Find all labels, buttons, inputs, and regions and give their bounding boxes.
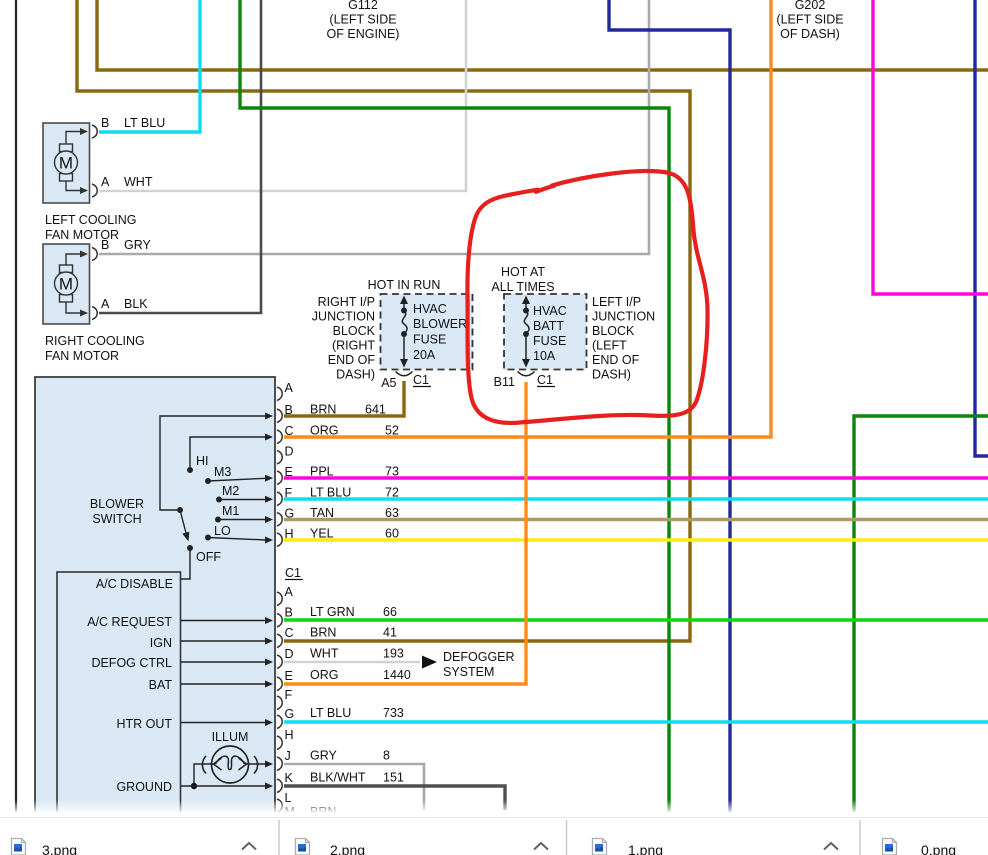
svg-text:HTR OUT: HTR OUT [116,717,172,731]
left fan pin A bracket [92,184,97,197]
svg-text:M2: M2 [222,484,239,498]
wire LT BLU 72 (pin F) [284,497,988,500]
svg-text:A: A [101,175,110,189]
svg-text:LO: LO [214,524,231,538]
svg-text:73: 73 [385,465,399,479]
svg-text:C: C [285,626,294,640]
svg-text:A: A [285,585,294,599]
control module inner box [57,572,181,813]
connector C1b pin E [277,668,411,691]
svg-text:RIGHT COOLING: RIGHT COOLING [45,334,145,348]
wire BRN top full-width [97,0,988,70]
connector C1b pin M faded [285,805,337,819]
svg-text:(LEFT SIDE: (LEFT SIDE [329,13,396,27]
svg-text:G: G [285,507,295,521]
connector C1b pin J [277,749,390,771]
download item 3.png icon [12,839,26,855]
svg-text:FUSE: FUSE [413,333,446,347]
svg-text:YEL: YEL [310,527,334,541]
svg-text:HI: HI [196,454,209,468]
svg-text:0.png: 0.png [921,842,956,855]
connector C1a pin D [277,445,294,465]
wire DK GRN long (to G112 area) [240,0,669,812]
svg-text:JUNCTION: JUNCTION [312,310,375,324]
svg-text:A5: A5 [381,376,396,390]
left fan name [45,213,136,242]
svg-text:BLOCK: BLOCK [592,324,635,338]
connector C1a pin G [277,506,399,526]
svg-text:J: J [285,749,291,763]
svg-text:GROUND: GROUND [116,780,172,794]
svg-text:END OF: END OF [592,353,640,367]
svg-text:M: M [59,275,73,294]
svg-text:A/C DISABLE: A/C DISABLE [96,577,173,591]
download shelf background [0,812,988,855]
wire DK BLU right edge [975,0,988,456]
ground G202 label [776,0,843,41]
svg-text:C1: C1 [285,566,301,580]
svg-text:M1: M1 [222,504,239,518]
svg-text:END OF: END OF [328,353,376,367]
switch M3 contact [205,465,273,484]
svg-text:M: M [59,154,73,173]
defogger system arrow [422,650,515,679]
switch OFF contact [181,545,221,579]
wire LT BLU 733 (pin G group2) [284,720,988,723]
svg-text:BLK/WHT: BLK/WHT [310,771,366,785]
download item 2.png icon [296,839,310,855]
wire ORG 1440 (pin E to fuse B11) [284,382,526,684]
svg-text:D: D [285,647,294,661]
svg-text:TAN: TAN [310,506,334,520]
fuse F2 HOT AT ALL TIMES label [491,265,554,294]
connector C1a pin F [277,486,399,506]
wire LT BLU to left fan pin B [99,0,200,132]
right fan pin B bracket [92,248,97,261]
connector C1b pin G [277,706,404,729]
download shelf top border [0,817,988,819]
switch pivot [177,507,183,513]
svg-text:72: 72 [385,486,399,500]
blower switch name [90,497,144,526]
svg-text:10A: 10A [533,349,556,363]
svg-text:GRY: GRY [124,238,152,252]
connector C1a pin B [277,403,386,423]
wire YEL 60 (pin H) [284,538,988,541]
svg-text:OFF: OFF [196,550,221,564]
connector C1a pin C [277,424,399,444]
wire BRN 641 (pin B to fuse A5) [284,381,404,416]
svg-text:F: F [285,486,293,500]
fuse F1 box [381,294,473,370]
wire PNK/magenta right [873,0,988,294]
svg-text:PPL: PPL [310,465,334,479]
svg-text:JUNCTION: JUNCTION [592,310,655,324]
svg-text:BLOWER: BLOWER [90,497,144,511]
connector C1a pin A [277,381,294,401]
svg-text:63: 63 [385,506,399,520]
download item 1.png icon [593,839,607,855]
wire BLK/WHT 151 (pin K) [284,786,505,810]
lamp left lead with junction [191,764,214,789]
svg-text:193: 193 [383,647,404,661]
connector C1b pin H [277,728,294,750]
fuse F2 symbol [522,296,530,368]
download item 2.png chevron [534,843,548,850]
switch common line to pin B [160,413,273,511]
switch M2 contact [216,484,273,503]
fuse F1 symbol [400,296,408,368]
wire GRY to right fan pin B [99,0,649,254]
HTR OUT line [116,717,273,731]
switch arm arrow [180,510,189,542]
svg-text:60: 60 [385,527,399,541]
download item 0.png icon [883,839,897,855]
svg-text:(LEFT: (LEFT [592,339,627,353]
svg-text:HVAC: HVAC [533,304,567,318]
svg-text:E: E [285,465,293,479]
svg-text:A: A [101,297,110,311]
fuse F2 box [504,294,587,370]
svg-text:H: H [285,527,294,541]
svg-text:BLOWER: BLOWER [413,317,467,331]
svg-text:LT GRN: LT GRN [310,605,355,619]
svg-text:BRN: BRN [310,626,336,640]
svg-text:66: 66 [383,605,397,619]
wire DK BLU long [609,0,730,812]
svg-text:B: B [285,403,293,417]
right fan pin B labels [101,238,152,252]
svg-text:B11: B11 [494,375,515,389]
svg-text:ORG: ORG [310,424,338,438]
svg-text:LT BLU: LT BLU [124,116,165,130]
wire TAN 63 (pin G) [284,518,988,521]
wire BRN 41 loop (pin C to G112 side) [77,0,690,641]
svg-text:BRN: BRN [310,403,336,417]
bottom fade [0,800,988,814]
connector C1b pin B [277,605,397,627]
svg-text:733: 733 [383,706,404,720]
svg-text:DEFOG CTRL: DEFOG CTRL [91,656,172,670]
connector C1b pin C [277,626,397,648]
fuse F1 connector cup [396,372,413,376]
right fan name [45,334,145,363]
svg-text:41: 41 [383,626,397,640]
right fan pin A labels [101,297,148,311]
svg-text:DASH): DASH) [592,368,631,382]
svg-text:B: B [285,606,293,620]
connector C1a pin E [277,465,399,485]
svg-text:HOT AT: HOT AT [501,265,545,279]
svg-text:FAN MOTOR: FAN MOTOR [45,349,119,363]
svg-text:DEFOGGER: DEFOGGER [443,650,515,664]
svg-text:D: D [285,445,294,459]
svg-text:C1: C1 [413,373,429,387]
switch LO contact [205,524,273,544]
wire BLK to right fan pin A [99,0,261,313]
svg-text:LT BLU: LT BLU [310,486,351,500]
svg-text:SYSTEM: SYSTEM [443,665,494,679]
left fan pin A labels [101,175,153,189]
svg-text:LEFT COOLING: LEFT COOLING [45,213,136,227]
svg-text:LT BLU: LT BLU [310,706,351,720]
svg-text:IGN: IGN [150,636,172,650]
svg-text:641: 641 [365,403,386,417]
svg-text:ORG: ORG [310,668,338,682]
motor M2 right cooling fan [43,244,90,324]
svg-text:8: 8 [383,749,390,763]
connector C1b pin K [277,771,404,793]
svg-text:M3: M3 [214,465,231,479]
motor M1 left cooling fan [43,123,90,203]
svg-text:OF ENGINE): OF ENGINE) [327,27,400,41]
right fan pin A bracket [92,307,97,320]
lamp ILLUM symbol [202,746,257,783]
IGN line [150,636,273,650]
connector C1b pin F [277,688,293,710]
svg-text:F: F [285,688,293,702]
wire GRY 8 (pin J) [284,764,424,810]
svg-text:A/C REQUEST: A/C REQUEST [87,615,172,629]
svg-text:C: C [285,424,294,438]
fuse F1 HVAC BLOWER FUSE 20A [413,302,467,362]
svg-text:C1: C1 [537,373,553,387]
lamp right lead to pin J [246,761,273,768]
fuse F2 C1 label [537,373,555,387]
connector C1 label [285,566,303,580]
svg-text:LEFT I/P: LEFT I/P [592,295,641,309]
download item 3.png chevron [242,843,256,850]
left junction block name [592,295,655,382]
svg-text:ILLUM: ILLUM [212,730,249,744]
A/C REQUEST line [87,615,273,629]
svg-text:GRY: GRY [310,749,338,763]
svg-text:ALL TIMES: ALL TIMES [491,280,554,294]
svg-text:2.png: 2.png [330,842,365,855]
svg-text:WHT: WHT [310,647,339,661]
svg-text:151: 151 [383,771,404,785]
fuse F1 C1 label [413,373,431,387]
svg-text:E: E [285,669,293,683]
wire WHT 193 (pin D to defogger) [284,661,420,664]
right junction block name [312,295,376,382]
switch M1 contact [215,504,273,523]
svg-text:3.png: 3.png [42,842,77,855]
svg-text:SWITCH: SWITCH [92,512,141,526]
left fan pin B bracket [92,125,97,138]
GROUND line [116,780,273,794]
diagram border line [15,0,17,812]
red annotation circle around fuse F2 [467,171,707,423]
svg-text:RIGHT I/P: RIGHT I/P [318,295,375,309]
wire DK GRN right edge [854,416,988,812]
svg-text:BAT: BAT [149,678,173,692]
svg-text:(LEFT SIDE: (LEFT SIDE [776,13,843,27]
svg-text:1.png: 1.png [628,842,663,855]
connector C1a pin H [277,527,399,547]
download item 1.png chevron [824,843,838,850]
wire PPL 73 (pin E) [284,476,988,479]
fuse F2 HVAC BATT FUSE 10A [533,304,567,363]
svg-text:DASH): DASH) [336,368,375,382]
svg-text:WHT: WHT [124,175,153,189]
ground G112 label [327,0,400,41]
switch HI contact [187,434,273,474]
svg-text:H: H [285,728,294,742]
svg-text:1440: 1440 [383,668,411,682]
wire WHT to left fan pin A [99,0,466,191]
svg-text:K: K [285,771,294,785]
wire LT GRN 66 (pin B group2) [284,618,988,621]
fuse F2 connector cup [518,372,535,376]
svg-text:BATT: BATT [533,319,564,333]
svg-text:FUSE: FUSE [533,334,566,348]
download shelf separator 1 [278,820,280,855]
svg-text:A: A [285,381,294,395]
connector C1b pin D [277,647,404,669]
connector C1b pin A [277,585,294,606]
left fan pin B labels [101,116,165,130]
svg-text:B: B [101,238,109,252]
svg-text:BLK: BLK [124,297,148,311]
svg-text:G: G [285,707,295,721]
svg-text:G202: G202 [795,0,826,12]
wire ORG 52 (pin C up to top) [284,0,771,437]
svg-text:52: 52 [385,424,399,438]
svg-text:HVAC: HVAC [413,302,447,316]
svg-text:20A: 20A [413,348,436,362]
DEFOG CTRL line [91,656,273,670]
svg-text:OF DASH): OF DASH) [780,27,840,41]
blower switch box [35,377,275,813]
BAT line [149,678,273,692]
svg-text:G112: G112 [348,0,378,12]
connector C1b pin L [277,791,292,813]
svg-text:(RIGHT: (RIGHT [332,339,375,353]
download shelf separator 2 [566,820,568,855]
svg-text:B: B [101,116,109,130]
svg-text:BLOCK: BLOCK [333,324,376,338]
download shelf separator 3 [859,820,861,855]
svg-text:HOT IN RUN: HOT IN RUN [368,278,441,292]
